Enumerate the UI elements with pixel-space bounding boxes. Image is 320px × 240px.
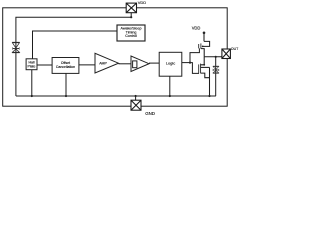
diode D1 TVS left	[12, 42, 20, 52]
svg-text:Cancellation: Cancellation	[56, 65, 75, 69]
node GND pad junction	[135, 95, 137, 97]
node nmos source junction	[208, 95, 210, 97]
label Awake/Sleep Timing Control	[121, 26, 142, 38]
node hall ground junction	[31, 95, 33, 97]
label Hall Plate	[28, 60, 36, 68]
svg-text:GND: GND	[145, 111, 155, 116]
wire awake-to-hall	[33, 31, 118, 59]
wire offset bottom	[65, 73, 67, 96]
pad OUT	[222, 49, 231, 59]
hall plate box	[26, 59, 37, 70]
svg-text:Logic: Logic	[166, 60, 176, 65]
wire hall to offset	[37, 64, 52, 66]
offset cancellation box	[52, 58, 79, 74]
wire amp to comparator	[119, 63, 132, 65]
diode D2 TVS right	[213, 66, 220, 73]
svg-text:Plate: Plate	[28, 64, 36, 68]
wire logic bottom	[169, 76, 171, 96]
transistor Q1 PMOS	[199, 33, 210, 57]
node logic output junction	[189, 62, 191, 64]
svg-text:OUT: OUT	[231, 46, 239, 51]
awake/sleep timing control box	[117, 25, 145, 41]
pad GND	[131, 100, 141, 110]
wire hall bottom	[31, 70, 33, 96]
node VDD pad junction	[130, 16, 132, 18]
node logic ground junction	[169, 95, 171, 97]
transistor Q2 NMOS	[199, 57, 210, 96]
wire pmos gate	[190, 48, 199, 62]
op-amp AMP	[95, 53, 119, 73]
node Q1 body dot	[202, 46, 204, 48]
wire logic output	[182, 62, 190, 64]
node OUT junction	[215, 56, 217, 58]
wire output node	[204, 56, 222, 58]
svg-text:VDD: VDD	[138, 0, 147, 5]
wire VDD rail	[16, 13, 131, 96]
svg-text:AMP: AMP	[99, 62, 107, 66]
node VDD terminal	[203, 32, 206, 35]
svg-text:VDD: VDD	[192, 26, 201, 31]
label Offset Cancellation	[56, 61, 75, 69]
wire nmos gate	[190, 63, 199, 74]
wire comparator to logic	[149, 62, 159, 64]
logic box	[159, 52, 182, 76]
chip outline	[3, 8, 228, 106]
wire GND rail	[16, 95, 216, 97]
node Q2 body dot	[203, 64, 205, 66]
node offset ground junction	[65, 95, 67, 97]
pad VDD	[126, 3, 136, 13]
wire offset to amp	[79, 64, 95, 66]
wire gnd pad stub	[135, 96, 137, 100]
svg-text:Control: Control	[125, 34, 137, 38]
wire out tvs down	[215, 57, 217, 96]
comparator with hysteresis	[131, 56, 149, 72]
